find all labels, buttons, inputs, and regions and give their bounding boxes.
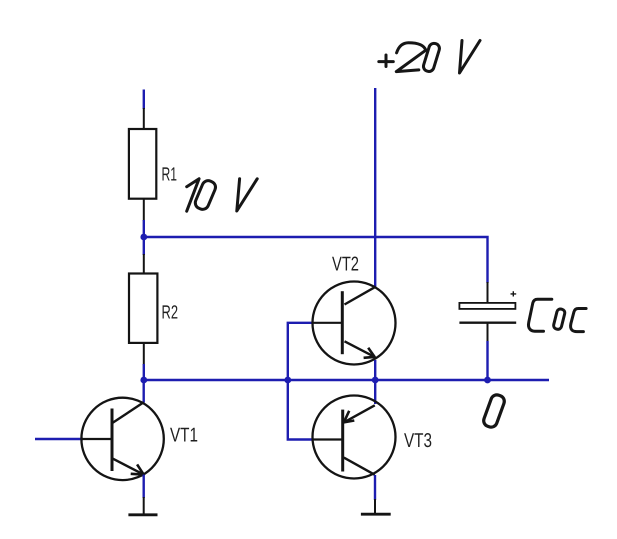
wire R2 top blue xyxy=(143,237,145,255)
wire VT1 collector blue xyxy=(142,380,144,403)
resistor R2 xyxy=(129,274,178,343)
node output junction emitters xyxy=(372,377,379,384)
wire R2 top lead xyxy=(143,254,145,275)
wire VT1 ground lead xyxy=(143,497,145,514)
wire VT2 emitter blue xyxy=(374,360,376,380)
label +20 V xyxy=(379,41,480,74)
resistor R1 xyxy=(129,129,177,199)
wire VT3 emitter blue xyxy=(374,380,376,404)
wire +20V supply vertical xyxy=(374,88,376,287)
transistor VT2 xyxy=(312,282,395,365)
ground VT1 xyxy=(128,513,157,516)
wire VT1 base blue xyxy=(35,438,83,440)
wire R1 bottom blue xyxy=(143,220,145,237)
wire bases vertical xyxy=(288,323,312,440)
label 10 V xyxy=(187,179,258,212)
svg-text:R2: R2 xyxy=(162,303,179,324)
wire upper bus xyxy=(144,237,488,283)
wire capacitor bottom blue xyxy=(486,341,488,380)
capacitor Coc xyxy=(459,291,516,323)
node output junction capacitor xyxy=(484,377,491,384)
wire VT3 collector blue xyxy=(374,475,376,500)
wire VT3 ground lead xyxy=(374,499,376,514)
transistor VT3 xyxy=(312,396,396,479)
ground VT3 xyxy=(361,513,391,516)
wire output bus xyxy=(144,379,549,381)
node output junction left xyxy=(140,377,147,384)
label 0 xyxy=(482,393,506,429)
svg-text:VT3: VT3 xyxy=(404,430,432,452)
label Coc xyxy=(528,299,586,331)
node junction R1-R2 xyxy=(140,234,147,241)
svg-text:R1: R1 xyxy=(162,165,178,186)
transistor VT1 xyxy=(81,398,163,480)
wire R1 top stub xyxy=(143,90,145,110)
wire R1 bottom lead xyxy=(143,199,145,222)
wire VT1 emitter blue xyxy=(142,475,144,498)
wire capacitor top lead xyxy=(487,282,489,303)
svg-text:VT2: VT2 xyxy=(332,254,359,276)
node output junction bases xyxy=(284,377,291,384)
svg-text:VT1: VT1 xyxy=(170,425,198,447)
wire capacitor bottom lead xyxy=(487,323,489,342)
wire R2 bottom lead xyxy=(143,343,145,366)
wire R1 top lead xyxy=(143,108,145,130)
wire R2 bottom blue xyxy=(143,364,145,380)
